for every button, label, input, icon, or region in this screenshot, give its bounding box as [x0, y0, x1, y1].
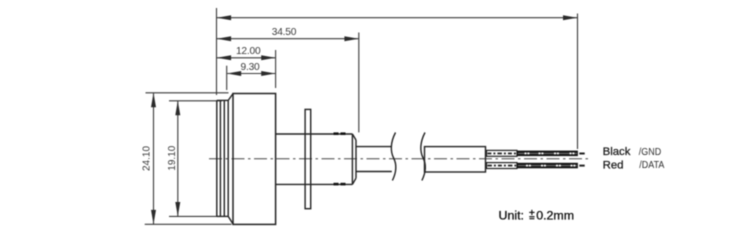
- dimension overall length (top, unlabeled): [217, 15, 578, 20]
- svg-text:0.2mm: 0.2mm: [536, 208, 574, 222]
- svg-text:/GND: /GND: [639, 147, 661, 159]
- cable boot: [356, 147, 392, 172]
- svg-text:34.50: 34.50: [272, 27, 297, 38]
- svg-text:19.10: 19.10: [167, 145, 178, 170]
- cap chamfer bottom: [228, 216, 233, 224]
- wire black braid section: [517, 151, 585, 157]
- centerline: [209, 158, 590, 160]
- wire red braid section: [517, 163, 585, 169]
- dimension 24.10 (vertical): [151, 93, 156, 224]
- svg-text:Unit:: Unit:: [499, 208, 524, 222]
- extension line left (x=216.5): [216, 8, 218, 95]
- extension line 19.10 top (y=100.2): [169, 100, 222, 102]
- svg-text:Red: Red: [603, 160, 624, 172]
- extension line 12.00/9.30 right (x=275.6): [275, 50, 277, 88]
- cap chamfer top: [228, 94, 233, 101]
- dimension 34.50: [217, 36, 359, 41]
- mid cylinder top edge: [276, 133, 353, 135]
- sensor body (main cylinder): [233, 94, 276, 225]
- extension line 24.10 bottom (y=224.9): [145, 223, 232, 225]
- extension line 24.10 top (y=93.2): [146, 92, 229, 94]
- cable: [425, 147, 486, 172]
- extension line 9.30 left (x=226.7): [226, 66, 228, 90]
- thread tick marks: [334, 134, 346, 184]
- wire black stripped section: [487, 150, 518, 156]
- dimension 12.00: [217, 55, 276, 60]
- svg-text:/DATA: /DATA: [639, 160, 665, 172]
- plus-minus symbol: [529, 210, 534, 219]
- break line 1: [391, 133, 395, 181]
- svg-text:Black: Black: [603, 146, 631, 158]
- extension line 34.50 right (x=358.8): [358, 33, 360, 133]
- svg-text:24.10: 24.10: [141, 146, 152, 171]
- sensor cap ridges (left cap): [217, 100, 228, 216]
- mid cylinder bottom edge: [276, 183, 353, 185]
- dimension 19.10 (vertical): [175, 101, 180, 216]
- extension line overall right (x=577.5): [577, 14, 579, 150]
- washer disc: [305, 109, 311, 208]
- break line 2: [421, 133, 425, 181]
- wire red stripped section: [487, 163, 518, 169]
- end nut: [352, 134, 356, 184]
- svg-text:9.30: 9.30: [240, 62, 260, 73]
- svg-text:12.00: 12.00: [236, 46, 261, 57]
- dimension 9.30: [227, 71, 276, 76]
- extension line 19.10 bottom (y=215.9): [169, 215, 218, 217]
